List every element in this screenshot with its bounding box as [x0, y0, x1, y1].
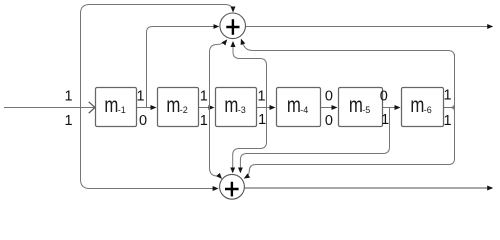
register m-5	[339, 88, 383, 127]
wire: right bus vertical	[454, 54, 456, 160]
svg-text:m: m	[166, 95, 180, 118]
svg-text:1: 1	[258, 89, 266, 105]
node: junction of m-6 output with right bus	[451, 104, 455, 112]
wire: input tap up and across top into top adder	[81, 5, 234, 108]
op-amp: bottom XOR adder circle	[220, 174, 245, 199]
wire: m-5 output tap down, left, into bottom adder top	[240, 108, 389, 173]
svg-text:1: 1	[136, 89, 144, 105]
svg-text:0: 0	[325, 113, 333, 129]
wire: top adder output arrow	[246, 26, 493, 28]
wire: m-4 to m-5	[321, 107, 337, 109]
svg-text:m: m	[104, 95, 118, 118]
register m-2	[158, 88, 199, 127]
svg-text:1: 1	[65, 113, 73, 129]
svg-text:1: 1	[258, 112, 266, 128]
svg-text:0: 0	[380, 89, 388, 105]
wire: m-3 output tap up, left, into top adder bottom	[233, 42, 267, 108]
wire: m-1 output tap up into top adder left	[147, 27, 219, 108]
wire: m-2 to m-3	[199, 107, 214, 109]
svg-text:m: m	[410, 95, 424, 118]
wire: m-2 output tap up into top adder bottom-left	[210, 40, 227, 107]
svg-text:m: m	[349, 95, 363, 118]
svg-text:0: 0	[139, 113, 147, 129]
register m-6	[402, 88, 444, 127]
op-amp: top XOR adder circle	[220, 13, 246, 39]
wire: m-3 to m-4	[257, 107, 275, 109]
register m-4	[277, 88, 321, 127]
wire: m-6 feedback up across to top adder bottom-right	[241, 40, 454, 57]
register m-3	[216, 88, 257, 127]
svg-text:1: 1	[381, 112, 389, 128]
svg-text:-2: -2	[180, 105, 188, 115]
svg-text:-3: -3	[238, 105, 246, 115]
wire: m-5 to m-6	[383, 107, 400, 109]
svg-text:-1: -1	[118, 105, 126, 115]
svg-text:m: m	[224, 95, 238, 118]
wire: input line into m-1	[4, 107, 95, 109]
wire: m-6 feedback down across to bottom adder top-right	[245, 159, 455, 179]
svg-text:-5: -5	[362, 105, 370, 115]
svg-text:1: 1	[200, 113, 208, 129]
svg-text:1: 1	[200, 89, 208, 105]
svg-text:1: 1	[444, 88, 452, 104]
register m-1	[96, 88, 137, 127]
svg-text:-4: -4	[300, 105, 308, 115]
wire: m-2 output tap down into bottom adder top-left	[210, 108, 222, 179]
wire: m-1 to m-2	[137, 107, 156, 109]
svg-text:m: m	[287, 95, 301, 118]
wire: m-6 output to right vertical bus	[444, 107, 455, 109]
svg-text:-6: -6	[424, 105, 432, 115]
svg-text:1: 1	[65, 89, 73, 105]
wire: m-3 output tap down, left, into bottom adder top	[233, 108, 267, 173]
svg-text:1: 1	[444, 113, 452, 129]
node: open chevron arrowhead at m-1 input	[89, 102, 95, 113]
wire: bottom adder output arrow	[244, 187, 492, 189]
svg-text:0: 0	[325, 89, 333, 105]
wire: input tap down and across bottom into bottom adder	[81, 108, 218, 189]
